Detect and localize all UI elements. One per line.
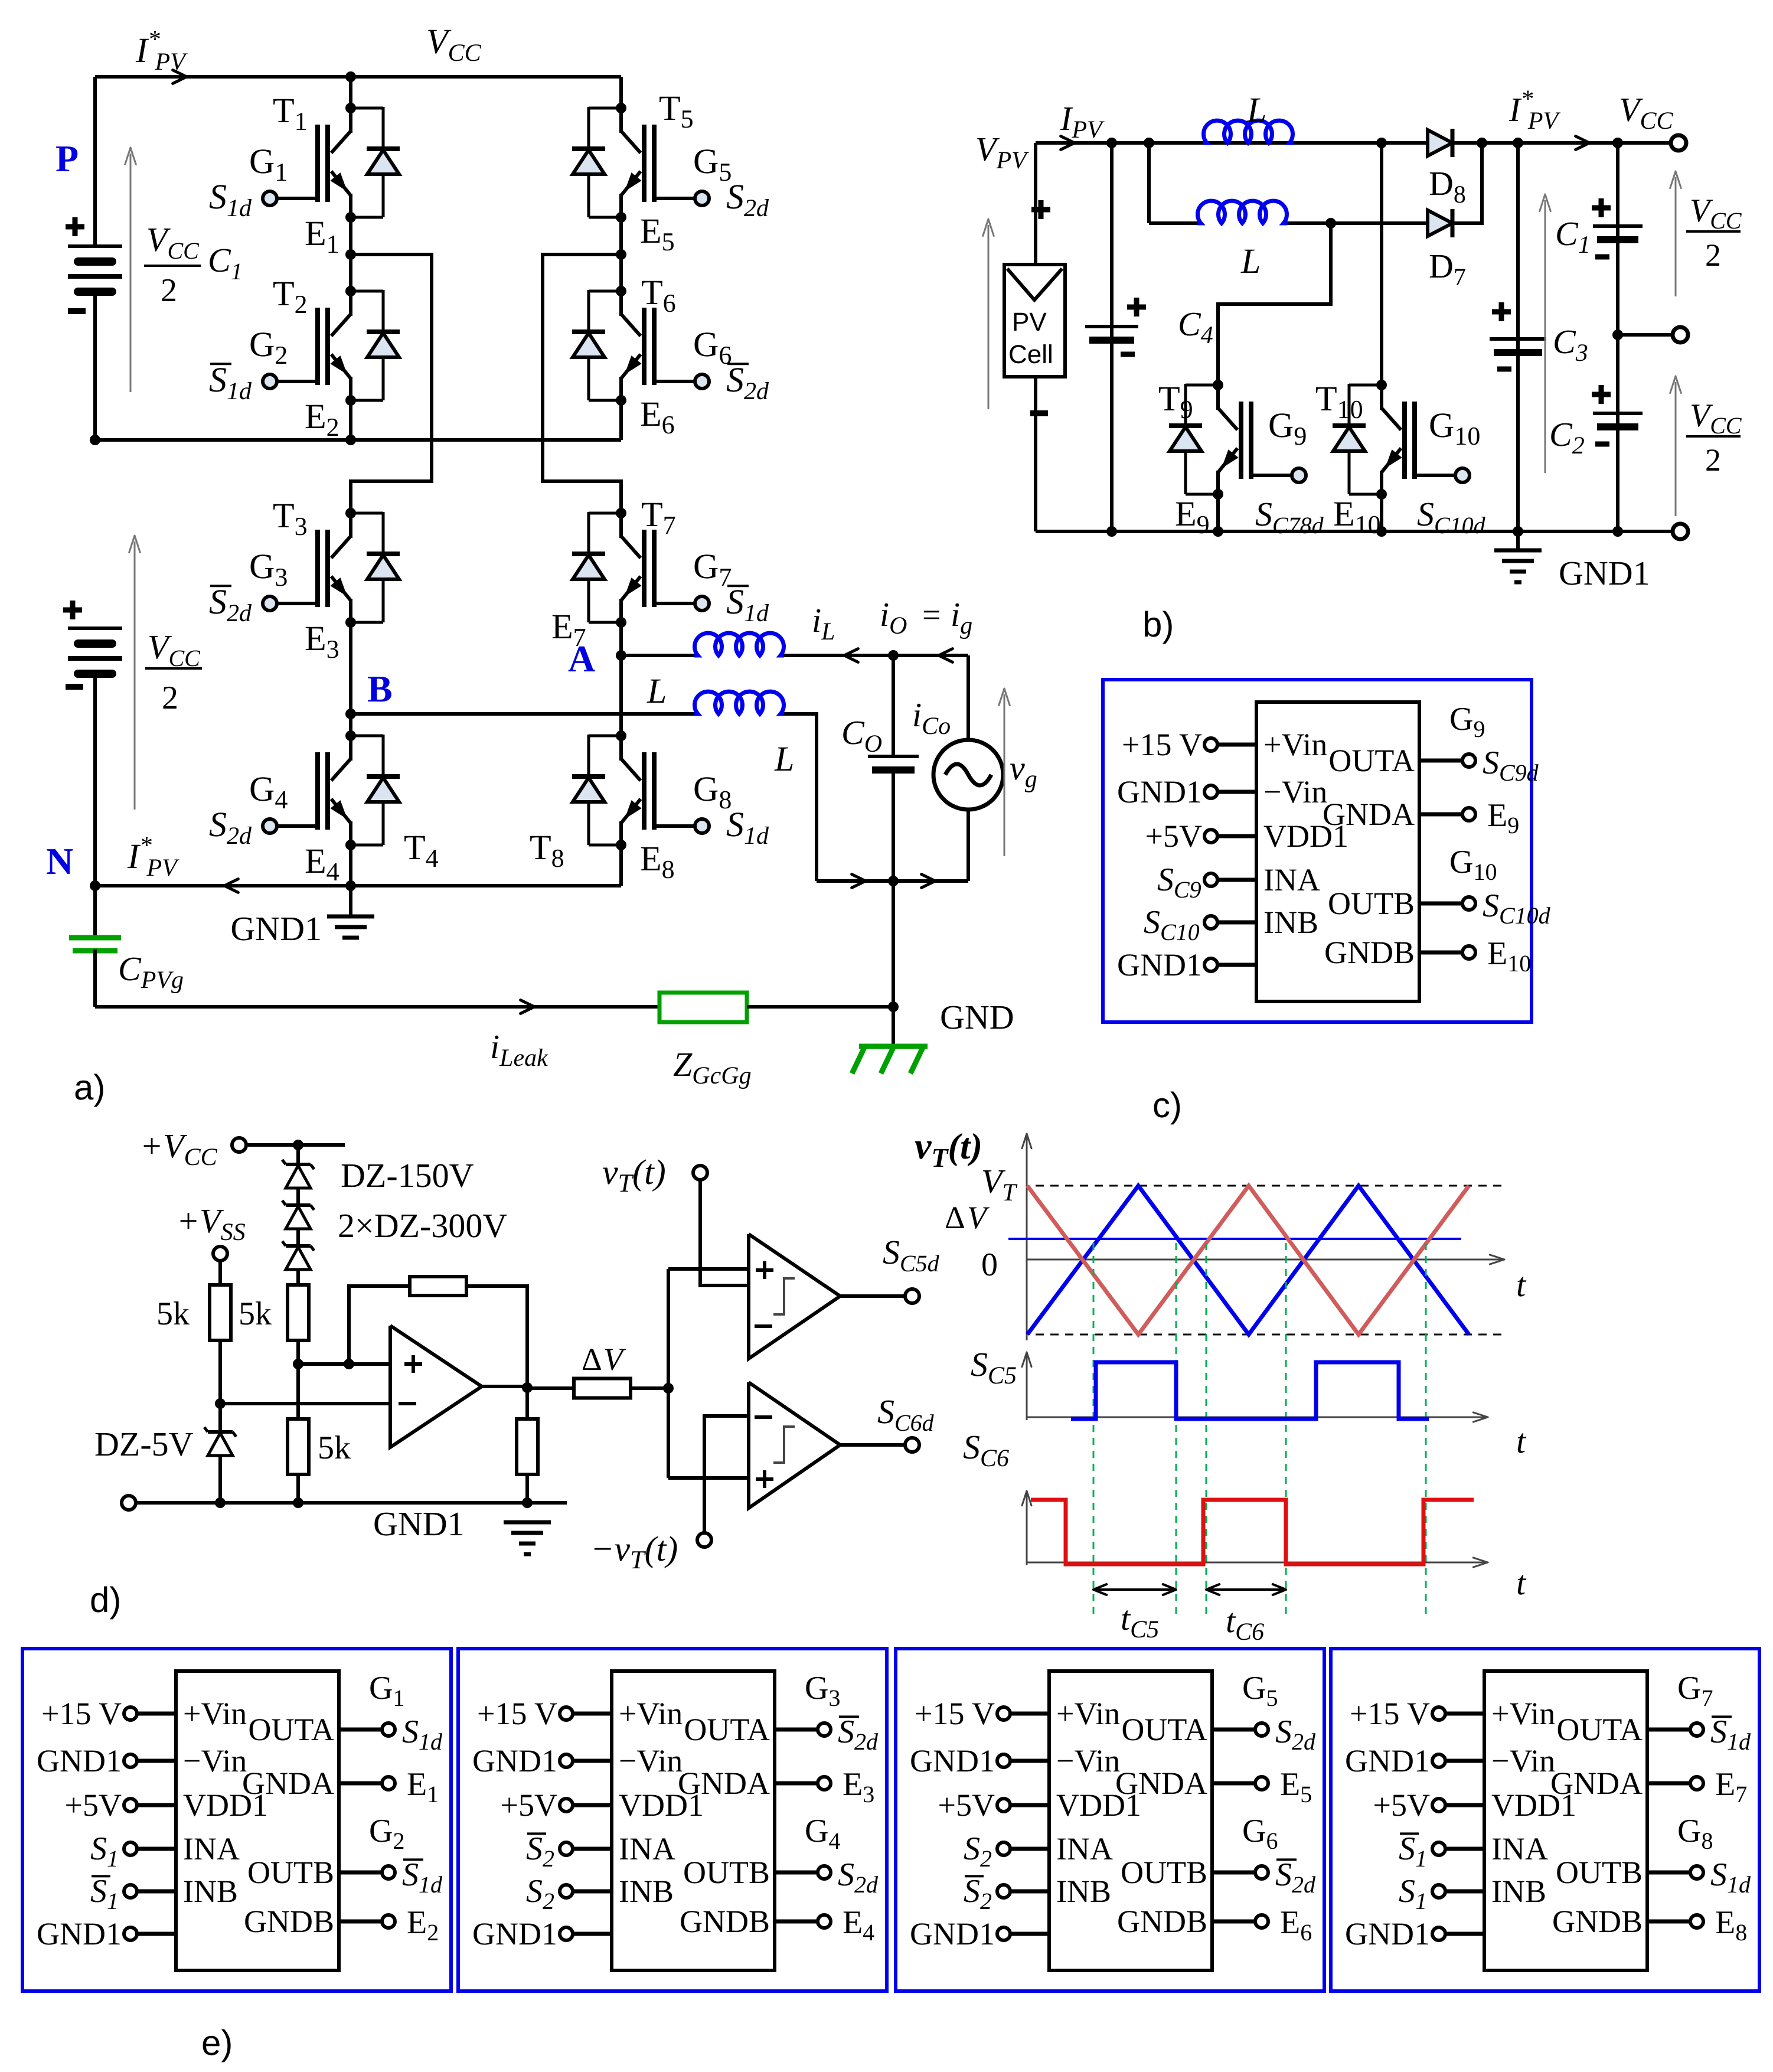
svg-text:I* PV: I* PV [127, 832, 179, 882]
svg-text:+VCC: +VCC [140, 1127, 218, 1171]
svg-text:T1: T1 [273, 91, 308, 136]
svg-text:Δ: Δ [945, 1200, 965, 1235]
svg-text:Cell: Cell [1008, 340, 1053, 369]
svg-text:GND1: GND1 [37, 1916, 122, 1952]
svg-text:S2d: S2d [209, 805, 252, 850]
svg-text:INA: INA [1056, 1831, 1113, 1867]
svg-text:+VSS: +VSS [177, 1202, 246, 1246]
svg-text:L: L [1240, 242, 1261, 280]
svg-text:S1d: S1d [726, 582, 769, 627]
svg-text:SC6d: SC6d [877, 1392, 935, 1436]
svg-text:GNDA: GNDA [242, 1766, 334, 1801]
svg-text:VT: VT [981, 1162, 1017, 1206]
svg-text:G2: G2 [249, 325, 288, 370]
svg-text:+5V: +5V [938, 1787, 995, 1823]
svg-text:E4: E4 [305, 841, 339, 886]
svg-text:T6: T6 [641, 273, 676, 318]
svg-text:OUTB: OUTB [1121, 1855, 1207, 1890]
svg-text:E5: E5 [640, 211, 675, 256]
svg-text:−Vin: −Vin [619, 1743, 683, 1779]
svg-text:GNDB: GNDB [1117, 1904, 1207, 1939]
svg-text:L: L [774, 739, 794, 778]
svg-text:SC5d: SC5d [883, 1233, 940, 1277]
svg-text:+Vin: +Vin [1491, 1696, 1555, 1731]
svg-text:GNDB: GNDB [1552, 1904, 1643, 1939]
svg-text:D8: D8 [1429, 164, 1466, 208]
svg-text:DZ-150V: DZ-150V [341, 1156, 474, 1195]
svg-text:−Vin: −Vin [1056, 1743, 1120, 1779]
svg-text:INA: INA [1491, 1831, 1548, 1867]
svg-text:iL: iL [812, 601, 835, 645]
svg-text:GND1: GND1 [373, 1505, 465, 1543]
svg-text:GNDB: GNDB [244, 1904, 334, 1939]
svg-text:S2d: S2d [726, 360, 769, 405]
svg-text:L: L [1246, 90, 1266, 129]
svg-text:GNDA: GNDA [678, 1766, 770, 1801]
svg-text:GNDA: GNDA [1115, 1766, 1207, 1801]
svg-text:E2: E2 [305, 397, 339, 442]
svg-text:C2: C2 [1549, 415, 1585, 459]
svg-text:OUTB: OUTB [247, 1855, 334, 1890]
svg-text:GND1: GND1 [1117, 774, 1202, 810]
svg-text:V: V [967, 1200, 990, 1235]
svg-text:GNDB: GNDB [1324, 935, 1415, 970]
svg-text:C3: C3 [1553, 322, 1588, 367]
svg-text:VCC: VCC [426, 22, 482, 67]
svg-text:GND1: GND1 [37, 1743, 122, 1779]
svg-text:SC5: SC5 [971, 1345, 1017, 1389]
svg-text:T7: T7 [641, 495, 676, 540]
svg-text:E8: E8 [640, 839, 675, 884]
svg-text:INB: INB [1263, 905, 1318, 940]
svg-text:t: t [1516, 1265, 1527, 1304]
svg-text:GNDB: GNDB [680, 1904, 770, 1939]
svg-text:G10: G10 [1429, 406, 1480, 451]
svg-text:T5: T5 [659, 89, 694, 133]
svg-text:G3: G3 [249, 547, 288, 592]
svg-text:P: P [55, 138, 79, 180]
svg-text:S2d: S2d [726, 177, 769, 222]
svg-text:OUTB: OUTB [1328, 886, 1415, 921]
svg-text:CPVg: CPVg [118, 949, 184, 994]
svg-text:INB: INB [1056, 1874, 1111, 1909]
svg-text:B: B [367, 668, 393, 710]
svg-text:SC6: SC6 [963, 1428, 1009, 1472]
svg-text:ig: ig [951, 595, 972, 639]
svg-text:2: 2 [1705, 237, 1721, 273]
svg-text:e): e) [201, 2023, 233, 2063]
svg-text:+5V: +5V [1373, 1787, 1430, 1823]
svg-text:E3: E3 [305, 619, 339, 664]
svg-text:INA: INA [183, 1831, 240, 1867]
svg-text:S1d: S1d [726, 805, 769, 850]
svg-text:−Vin: −Vin [183, 1743, 247, 1779]
svg-text:+15 V: +15 V [477, 1696, 557, 1731]
svg-text:OUTB: OUTB [683, 1855, 770, 1890]
svg-text:−vT(t): −vT(t) [590, 1529, 678, 1574]
svg-text:2: 2 [162, 680, 178, 716]
svg-text:vT(t): vT(t) [915, 1125, 982, 1173]
svg-text:VCC: VCC [1690, 397, 1742, 439]
svg-text:C1: C1 [208, 241, 243, 285]
svg-text:iCo: iCo [912, 696, 951, 740]
svg-text:S2d: S2d [209, 582, 252, 627]
svg-text:INA: INA [619, 1831, 675, 1867]
svg-text:GNDA: GNDA [1323, 797, 1415, 832]
svg-text:=: = [922, 597, 941, 634]
svg-text:OUTA: OUTA [1556, 1712, 1643, 1747]
svg-text:C4: C4 [1178, 305, 1213, 349]
svg-text:I* PV: I* PV [1508, 86, 1560, 135]
svg-text:tC5: tC5 [1121, 1599, 1159, 1643]
svg-text:0: 0 [981, 1247, 998, 1283]
svg-text:GNDA: GNDA [1550, 1766, 1643, 1801]
svg-text:Δ: Δ [582, 1342, 602, 1377]
svg-text:iLeak: iLeak [490, 1027, 548, 1072]
svg-text:2: 2 [161, 272, 177, 309]
svg-text:a): a) [74, 1068, 105, 1107]
svg-text:PV: PV [1012, 308, 1047, 337]
svg-text:L: L [646, 671, 667, 710]
svg-text:VCC: VCC [146, 220, 200, 264]
svg-text:+15 V: +15 V [915, 1696, 995, 1731]
svg-text:V: V [603, 1342, 626, 1377]
svg-text:+5V: +5V [1145, 818, 1202, 854]
svg-text:OUTA: OUTA [1328, 743, 1415, 778]
svg-text:ZGcGg: ZGcGg [673, 1045, 752, 1089]
svg-text:E6: E6 [640, 394, 675, 439]
svg-text:INB: INB [619, 1874, 674, 1909]
svg-text:GND1: GND1 [472, 1916, 557, 1952]
svg-text:d): d) [90, 1580, 121, 1620]
svg-text:E7: E7 [551, 607, 586, 652]
svg-text:OUTB: OUTB [1556, 1855, 1643, 1890]
svg-text:T2: T2 [273, 274, 308, 319]
svg-text:GND1: GND1 [1345, 1916, 1430, 1952]
svg-text:INB: INB [183, 1874, 238, 1909]
svg-text:VCC: VCC [1690, 192, 1742, 234]
svg-text:5k: 5k [318, 1430, 351, 1466]
svg-text:5k: 5k [239, 1296, 272, 1332]
svg-text:+Vin: +Vin [1056, 1696, 1120, 1731]
svg-text:−Vin: −Vin [1263, 774, 1327, 810]
svg-text:GND1: GND1 [910, 1916, 995, 1952]
svg-text:VPV: VPV [975, 130, 1029, 174]
svg-text:VCC: VCC [1619, 90, 1673, 135]
svg-text:E1: E1 [305, 214, 339, 259]
svg-text:GND1: GND1 [1559, 554, 1650, 592]
svg-text:C1: C1 [1555, 214, 1591, 259]
svg-text:GND1: GND1 [1345, 1743, 1430, 1779]
svg-text:+15 V: +15 V [41, 1696, 122, 1731]
svg-text:N: N [46, 840, 73, 882]
svg-text:−Vin: −Vin [1491, 1743, 1555, 1779]
svg-text:+Vin: +Vin [183, 1696, 247, 1731]
svg-text:DZ-5V: DZ-5V [94, 1425, 194, 1463]
svg-text:2: 2 [1705, 442, 1721, 478]
svg-text:2×DZ-300V: 2×DZ-300V [338, 1206, 507, 1245]
svg-text:GND1: GND1 [230, 909, 322, 948]
svg-text:vg: vg [1010, 749, 1037, 793]
svg-text:G4: G4 [249, 769, 288, 814]
svg-text:c): c) [1152, 1085, 1182, 1125]
svg-text:T8: T8 [530, 828, 564, 873]
svg-text:+15 V: +15 V [1122, 727, 1202, 762]
svg-text:S1d: S1d [209, 177, 252, 222]
svg-text:INB: INB [1491, 1874, 1546, 1909]
svg-text:OUTA: OUTA [248, 1712, 334, 1747]
svg-text:INA: INA [1263, 862, 1320, 898]
svg-text:iO: iO [880, 595, 907, 639]
svg-text:+5V: +5V [65, 1787, 122, 1823]
svg-text:IPV: IPV [1060, 99, 1105, 143]
svg-text:+Vin: +Vin [1263, 727, 1327, 762]
svg-text:OUTA: OUTA [1121, 1712, 1207, 1747]
svg-text:T3: T3 [273, 496, 308, 541]
svg-text:t: t [1516, 1422, 1527, 1460]
svg-text:OUTA: OUTA [684, 1712, 770, 1747]
svg-text:GND1: GND1 [1117, 947, 1202, 983]
svg-text:vT(t): vT(t) [602, 1153, 666, 1197]
svg-text:5k: 5k [156, 1296, 190, 1332]
svg-text:t: t [1516, 1564, 1527, 1602]
svg-text:tC6: tC6 [1226, 1601, 1264, 1646]
svg-text:T4: T4 [404, 828, 439, 873]
svg-text:+15 V: +15 V [1350, 1696, 1430, 1731]
svg-text:GND1: GND1 [910, 1743, 995, 1779]
svg-text:b): b) [1142, 605, 1174, 644]
svg-text:G1: G1 [249, 142, 288, 187]
svg-text:+5V: +5V [501, 1787, 557, 1823]
svg-text:S1d: S1d [209, 360, 252, 405]
svg-text:G9: G9 [1268, 406, 1307, 451]
svg-text:I* PV: I* PV [135, 26, 188, 76]
svg-text:+Vin: +Vin [619, 1696, 683, 1731]
svg-text:VCC: VCC [148, 628, 201, 671]
svg-text:GND: GND [940, 998, 1014, 1036]
svg-text:GND1: GND1 [472, 1743, 557, 1779]
svg-text:D7: D7 [1429, 247, 1466, 291]
svg-text:CO: CO [841, 713, 882, 758]
